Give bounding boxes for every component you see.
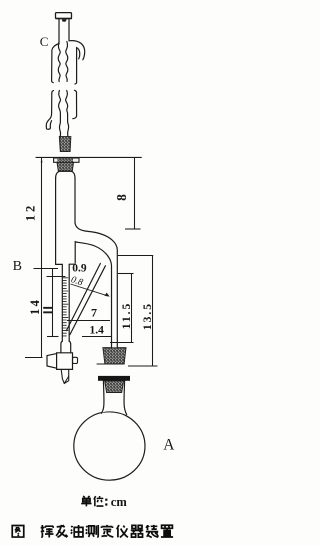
stopcock plug cone (left) [47,354,57,369]
condenser C outer wall left (upper section) [52,44,59,83]
return tube ground glass male cone (stippled) [103,348,126,364]
svg-text:14: 14 [28,298,42,315]
svg-text:12: 12 [23,203,37,222]
condenser C inner wavy tube (lower section) [59,91,61,137]
caption char 发 [56,525,68,538]
top tick of 11.5 [118,273,134,275]
dimension line 12/14 (left vertical) [41,157,43,357]
graduated tube left wall [61,264,63,341]
bottom tick of 11.5 [110,342,134,344]
scale double bars [43,307,52,309]
top tick of 13.5 [118,255,153,257]
caption char 置 [161,525,173,537]
stopcock right nub [73,357,78,363]
tick between 12 and 14 / under 0.9 [34,268,59,270]
condenser C water inlet nipple mouth [47,128,51,131]
condenser C top neck [58,19,60,44]
dimension line 13.5 [152,256,154,367]
neck join mask [102,403,126,415]
flask neck right wall [124,381,127,415]
condenser C ground glass male joint (into tube B) [59,137,71,152]
unit char 单 [81,496,91,506]
flask socket flange (dark bar) [98,376,130,381]
bottom tick of 13.5 [128,365,158,367]
male cone bottom edge line [97,363,124,365]
tube B neck shoulders to graduated tube [56,263,76,265]
bottom tick of 14 [25,357,43,359]
caption char 器 [131,525,143,537]
flask neck left wall [101,381,104,413]
flask A body [74,412,145,480]
stopcock body [57,353,73,370]
condenser C water inlet nipple inner line [50,121,51,128]
tube B left wall [55,178,57,264]
CJK glyph strokes [12,496,173,538]
tube B socket (ground glass, stippled) [57,162,74,171]
caption char 定 [101,525,113,537]
graduation tick marks [63,278,68,336]
tube B dome shoulders [56,171,75,178]
flask socket (stippled) [105,381,124,393]
caption char 测 [86,525,98,537]
unit char 位 [94,496,104,506]
svg-text:13.5: 13.5 [142,302,154,330]
tube B right wall lower (below side arm opening) [74,242,76,264]
svg-text:0.9: 0.9 [72,263,87,275]
bend outer wall into return tube [75,223,117,348]
svg-text:C: C [40,34,49,49]
condenser C outer wall right (upper section) [75,48,77,85]
dimension line 11.5 [131,274,133,343]
inner dimension top tick [47,276,66,278]
dimension line 7 under label [67,320,110,322]
graduated tube right wall [68,264,70,341]
tube B right wall upper [74,178,76,223]
caption char 油 [71,525,83,537]
svg-text:7: 7 [91,306,97,320]
bottom tick of 8 [125,228,141,230]
tube B socket collar [54,158,79,162]
svg-text:B: B [13,259,22,274]
inner dimension bottom tick [47,336,59,338]
condenser C inner wavy tube (upper section) [58,42,60,82]
caption char 图 [12,526,24,538]
overflow diagonal tube wall 2 [70,266,106,335]
horizontal reference line (top of tube B) [36,156,141,158]
caption char 装 [146,525,159,538]
condenser C side arm (water outlet, top right) [69,41,85,60]
condenser C outer wall right (lower section) [73,90,77,118]
svg-text:1.4: 1.4 [90,325,105,337]
stopper cap on condenser top [56,13,72,19]
svg-text:cm: cm [111,495,128,509]
return tube male cone shoulders [103,347,126,349]
svg-text:11.5: 11.5 [121,302,133,330]
caption char 挥 [41,525,54,538]
dimension line 1.4 under label [82,336,111,338]
graduated tube flare to stopcock [61,341,62,353]
svg-text:8: 8 [114,194,129,201]
dimension line 8 (right vertical) [134,158,136,229]
svg-text:A: A [163,437,175,454]
arrow from 0.8 to return tube [71,284,108,296]
stopcock drip tip [61,369,68,383]
svg-text:0.8: 0.8 [70,275,85,288]
DIMENSIONS [25,157,158,366]
caption char 仪 [117,525,128,537]
condenser C outer wall left (lower section) [46,91,53,129]
bend inner wall into return tube [76,242,112,348]
unit fullwidth colon [105,499,107,501]
overflow diagonal tube wall 1 [66,263,100,330]
inner dimension line (graduated span) [52,269,54,337]
